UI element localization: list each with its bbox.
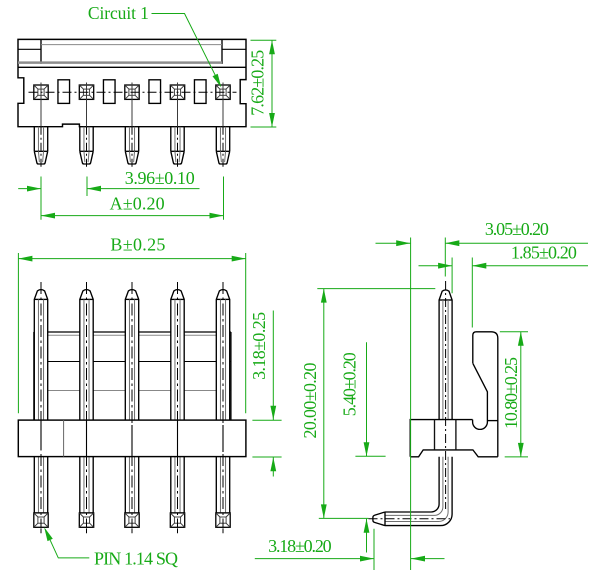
svg-text:5.40±0.20: 5.40±0.20 bbox=[340, 352, 360, 416]
svg-text:A±0.20: A±0.20 bbox=[110, 194, 165, 214]
svg-text:7.62±0.25: 7.62±0.25 bbox=[248, 50, 268, 116]
svg-text:3.18±0.25: 3.18±0.25 bbox=[249, 312, 269, 380]
svg-text:3.05±0.20: 3.05±0.20 bbox=[485, 219, 549, 239]
svg-text:20.00±0.20: 20.00±0.20 bbox=[300, 363, 320, 439]
svg-text:10.80±0.25: 10.80±0.25 bbox=[501, 357, 521, 429]
svg-text:Circuit 1: Circuit 1 bbox=[88, 3, 149, 23]
svg-text:B±0.25: B±0.25 bbox=[110, 234, 165, 254]
svg-text:3.18±0.20: 3.18±0.20 bbox=[268, 536, 332, 556]
svg-text:PIN 1.14 SQ: PIN 1.14 SQ bbox=[94, 549, 178, 569]
svg-text:3.96±0.10: 3.96±0.10 bbox=[125, 168, 195, 188]
svg-text:1.85±0.20: 1.85±0.20 bbox=[511, 243, 577, 263]
